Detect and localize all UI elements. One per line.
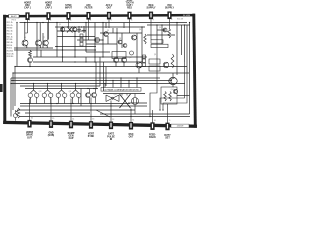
svg-text:CAP 2: CAP 2 <box>45 7 52 10</box>
svg-text:Q10: Q10 <box>129 57 132 59</box>
svg-text:SL1430: SL1430 <box>183 15 191 17</box>
svg-text:CAP: CAP <box>69 137 74 140</box>
svg-text:16: 16 <box>31 117 33 119</box>
svg-text:Q8: Q8 <box>119 38 121 40</box>
svg-text:2-61309: 2-61309 <box>177 126 184 128</box>
svg-text:IN: IN <box>110 139 113 141</box>
svg-text:SET: SET <box>165 137 170 139</box>
svg-text:RAMP: RAMP <box>68 132 75 135</box>
svg-text:R5 10k: R5 10k <box>7 33 13 35</box>
svg-text:Q6: Q6 <box>24 37 26 39</box>
svg-text:14: 14 <box>72 118 74 120</box>
svg-text:10: 10 <box>154 120 156 122</box>
svg-text:9: 9 <box>169 120 170 122</box>
svg-text:R10 1k: R10 1k <box>7 48 13 50</box>
svg-text:R13 240: R13 240 <box>7 56 13 58</box>
svg-text:Q4: Q4 <box>139 29 141 31</box>
svg-text:FILTER: FILTER <box>85 8 93 10</box>
svg-text:Q11: Q11 <box>69 91 72 93</box>
svg-text:Q9: Q9 <box>154 54 156 56</box>
svg-text:11: 11 <box>132 120 134 122</box>
svg-text:RES: RES <box>127 8 132 10</box>
svg-text:12: 12 <box>112 119 114 121</box>
svg-text:Q2: Q2 <box>83 29 85 31</box>
svg-text:GATE: GATE <box>108 133 115 136</box>
svg-text:AFC: AFC <box>86 4 91 7</box>
svg-text:BACK: BACK <box>149 136 156 139</box>
svg-text:A1472: A1472 <box>11 15 16 18</box>
svg-text:R9 12k: R9 12k <box>7 45 13 47</box>
svg-text:OUT: OUT <box>129 137 134 139</box>
svg-text:SYNC: SYNC <box>88 136 95 138</box>
svg-text:1/2 PHASE COMPARATOR NETWORK: 1/2 PHASE COMPARATOR NETWORK <box>103 89 139 92</box>
svg-text:Q14: Q14 <box>171 89 174 91</box>
svg-text:OUT: OUT <box>27 137 32 139</box>
svg-text:3: 3 <box>70 20 71 22</box>
svg-text:INPUT: INPUT <box>65 8 72 10</box>
svg-text:R3 680: R3 680 <box>7 28 13 30</box>
svg-text:5: 5 <box>111 20 112 22</box>
svg-text:SUPPLY: SUPPLY <box>147 8 156 10</box>
svg-text:CAP 1: CAP 1 <box>24 7 31 10</box>
svg-text:R2 4.7k: R2 4.7k <box>7 25 13 27</box>
svg-text:8: 8 <box>171 19 172 21</box>
svg-text:R8 5.6k: R8 5.6k <box>7 42 13 44</box>
svg-text:13: 13 <box>92 119 94 121</box>
svg-text:(SUB): (SUB) <box>48 135 55 137</box>
svg-text:R4 2.2k: R4 2.2k <box>7 31 13 33</box>
svg-text:R12 3.3k: R12 3.3k <box>7 53 14 55</box>
svg-text:2: 2 <box>50 20 51 22</box>
svg-text:R7 330: R7 330 <box>7 39 13 41</box>
svg-text:Q3: Q3 <box>107 30 109 32</box>
svg-text:15: 15 <box>52 118 54 120</box>
svg-text:4: 4 <box>90 20 91 22</box>
svg-text:VCC 5V: VCC 5V <box>177 19 184 21</box>
svg-text:R11 820: R11 820 <box>7 51 13 53</box>
svg-text:Q12: Q12 <box>39 91 42 93</box>
svg-text:7: 7 <box>153 19 154 21</box>
svg-text:Q1: Q1 <box>59 24 61 26</box>
svg-text:R6 1.5k: R6 1.5k <box>7 36 13 38</box>
svg-text:SUPPLY: SUPPLY <box>165 8 174 10</box>
svg-text:OUT: OUT <box>107 8 112 10</box>
svg-text:Q5: Q5 <box>159 27 161 29</box>
svg-text:R1 1.2k: R1 1.2k <box>7 22 13 24</box>
svg-text:Q13: Q13 <box>114 94 117 96</box>
svg-text:Q7: Q7 <box>43 37 45 39</box>
svg-text:6: 6 <box>131 19 132 21</box>
svg-text:AFC 2: AFC 2 <box>106 4 113 7</box>
svg-text:1: 1 <box>29 20 30 22</box>
svg-text:CAP /: CAP / <box>126 4 132 7</box>
